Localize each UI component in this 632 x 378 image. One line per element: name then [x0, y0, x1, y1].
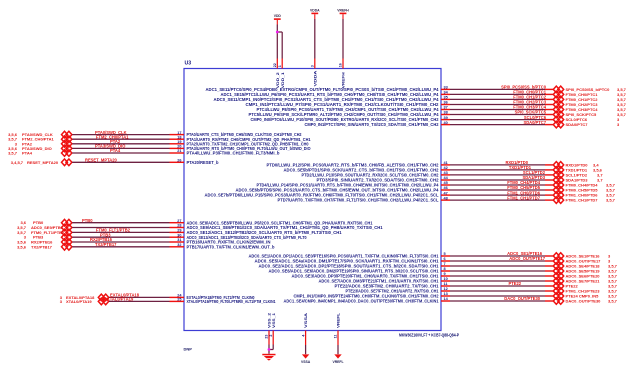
wire FTM1_CH1/PTE23: [441, 290, 553, 292]
off-page connector FTM2_CH0/PTA1: [62, 136, 72, 143]
svg-text:VREFL: VREFL: [336, 312, 341, 328]
svg-text:12: 12: [444, 287, 448, 291]
node ADC0_SE7/PTE21 sheet refs: [566, 279, 618, 284]
off-page connector ADC0_SE4/PTE18: [553, 263, 563, 270]
svg-text:7: 7: [444, 262, 446, 266]
svg-text:1: 1: [278, 65, 282, 67]
junction VDD: [276, 31, 279, 34]
off-page connector ADC0_SE6/PTE20: [553, 273, 563, 280]
off-page connector SPI0_PCS0/SS_b/PTC0: [553, 86, 563, 93]
svg-text:36: 36: [444, 101, 448, 105]
svg-text:17: 17: [177, 131, 181, 135]
pin 48 FTM1_CH1/PTD7: [278, 196, 448, 202]
node FTM1_CH0/PTD6 sheet refs: [566, 193, 616, 198]
svg-text:27: 27: [177, 219, 181, 223]
pin 13 PTE24 CMP0_IN5: [294, 292, 448, 298]
svg-text:3,7: 3,7: [597, 178, 603, 183]
svg-text:43: 43: [444, 171, 448, 175]
power symbol VDD: [274, 14, 282, 25]
svg-text:VSS_1: VSS_1: [271, 312, 276, 328]
pin 34 FTM0_CH0/PTC1: [221, 91, 449, 97]
pin 12 FTM1_CH1/PTE23: [346, 287, 448, 293]
node FTM1_CH1/PTE23 sheet refs: [566, 289, 618, 294]
node FTM0_CH2/PTC3 sheet refs: [566, 102, 627, 107]
wire XTAL0/PTA19: [109, 300, 184, 302]
off-page connector FTM0_CH2/PTC3: [553, 101, 563, 108]
wire PTA4: [72, 152, 184, 154]
off-page connector SDA0/PTC7: [553, 121, 563, 128]
off-page connector RXD1/PTD0: [553, 162, 563, 169]
off-page connector PTA0/SWD_CLK: [62, 131, 72, 138]
node ADC0_SE6/PTE20 sheet refs: [566, 274, 618, 279]
svg-text:47: 47: [444, 191, 448, 195]
op-amp U3 microcontroller body: [184, 69, 441, 331]
wire ADC0_SE5/PTE19: [441, 270, 553, 272]
svg-text:4: 4: [301, 335, 305, 337]
wire PTA3/SWD_DIO: [72, 147, 184, 149]
pin 42 TXD1/PTD1: [284, 166, 448, 172]
svg-text:XTAL0/PTA19/FTM0_FLT0/LPTMR0_A: XTAL0/PTA19/FTM0_FLT0/LPTMR0_ALT1/FTM_CL…: [187, 299, 277, 304]
pin 41 RXD1/PTD0: [267, 161, 448, 167]
wire FTM0_CH4/PTD4: [441, 184, 553, 186]
svg-text:48: 48: [444, 196, 448, 200]
node PTE24 CMP0_IN5 sheet refs: [566, 294, 618, 299]
wire PTE24 CMP0_IN5: [441, 295, 553, 297]
svg-text:3,5,7: 3,5,7: [608, 299, 618, 304]
off-page connector FTM0_CH1/PTC2: [553, 96, 563, 103]
svg-text:ADC1_SE4/CMP0_IN4/CMP1_IN4/ADC: ADC1_SE4/CMP0_IN4/CMP1_IN4/ADC0_DAC0_OUT…: [284, 299, 440, 304]
svg-text:20: 20: [177, 145, 181, 149]
junction VSS: [268, 348, 271, 351]
svg-text:10: 10: [444, 277, 448, 281]
wire PTA2: [72, 143, 184, 145]
pin 17 PTA0/SWD_CLK: [177, 131, 302, 137]
pin 19 PTA2: [177, 140, 309, 146]
svg-text:VSSA: VSSA: [301, 360, 311, 364]
node ADC0_SE1/PTE16 sheet refs: [566, 254, 612, 259]
pin 38 SPI0_SCK/PTC5: [249, 111, 448, 117]
node TX2/PTB17 sheet refs: [17, 244, 53, 249]
wire ADC0_SE4/PTE18: [441, 265, 553, 267]
pin 5 ADC0_SE1/PTE16: [249, 252, 446, 258]
node ADC0_OUT/PTE17 sheet refs: [566, 259, 612, 264]
wire PTA0/SWD_CLK: [72, 134, 184, 136]
svg-text:VDD: VDD: [274, 14, 282, 18]
wire FTM1_CH1/PTD7: [441, 199, 553, 201]
node FTM2_CH0/PTA1 sheet refs: [8, 137, 54, 142]
off-page connector FTM0_FLT1/PTB2: [62, 229, 72, 236]
pin 16 VREFH: [339, 63, 346, 88]
wire VSS_2 vertical: [268, 331, 270, 354]
pin 39 SCL0/PTC6: [251, 116, 448, 122]
node SCL0/PTC6 sheet refs: [566, 117, 621, 122]
svg-text:3,5,6: 3,5,6: [17, 244, 27, 249]
off-page connector SCL0/PTC6: [553, 116, 563, 123]
off-page connector PTA2: [62, 141, 72, 148]
pin 21 PTA4: [177, 149, 280, 155]
svg-text:26: 26: [177, 159, 181, 163]
off-page connector RESET_MPTA20: [62, 159, 72, 166]
svg-text:ADC0_OUT/PTE17: ADC0_OUT/PTE17: [509, 256, 545, 261]
svg-text:PTE22: PTE22: [508, 281, 521, 286]
svg-text:3,5,7: 3,5,7: [8, 151, 18, 156]
svg-text:38: 38: [444, 111, 448, 115]
svg-text:19: 19: [177, 140, 181, 144]
svg-text:28: 28: [177, 224, 181, 228]
off-page connector PTE24 CMP0_IN5: [553, 293, 563, 300]
pin 9 ADC0_SE6/PTE20: [292, 272, 446, 278]
pin 36 FTM0_CH2/PTC3: [246, 101, 448, 107]
svg-text:11: 11: [444, 282, 448, 286]
svg-text:37: 37: [444, 106, 448, 110]
pin 11 VREFL: [334, 312, 341, 338]
off-page connector FTM0_CH4/PTD4: [553, 182, 563, 189]
node SDA0/PTC7 sheet refs: [566, 122, 621, 127]
off-page connector ADC0_SE1/PTE16: [553, 253, 563, 260]
wire RXD1/PTD0: [441, 164, 553, 166]
pin 20 PTA3/SWD_DIO: [177, 145, 311, 151]
svg-text:VDD_1: VDD_1: [280, 71, 285, 88]
node PTA4 sheet refs: [8, 151, 33, 156]
power symbol VREFL: [332, 354, 343, 363]
svg-text:PTA4: PTA4: [22, 151, 33, 156]
svg-text:41: 41: [444, 161, 448, 165]
pin 31 RX2/PTB16: [177, 238, 270, 244]
svg-text:31: 31: [177, 238, 181, 242]
svg-text:18: 18: [177, 135, 181, 139]
pin 3 VDDA: [311, 65, 318, 86]
pin 7 ADC0_SE4/PTE18: [259, 262, 446, 268]
wire SPI0_PCS0/SS_b/PTC0: [441, 88, 553, 90]
svg-text:DAC0_OUT/PTE30: DAC0_OUT/PTE30: [566, 299, 602, 304]
wire PTB3: [72, 236, 184, 238]
svg-text:DNP: DNP: [184, 347, 193, 352]
svg-text:5: 5: [444, 252, 446, 256]
svg-text:45: 45: [444, 181, 448, 185]
wire ADC0_SE6/PTE20: [441, 275, 553, 277]
off-page connector FTM1_CH1/PTE23: [553, 288, 563, 295]
node FTM0_CH3/PTC4 sheet refs: [566, 107, 627, 112]
wire FTM2_CH0/PTA1: [72, 138, 184, 140]
svg-text:XTAL0/PTA19: XTAL0/PTA19: [107, 297, 134, 302]
node FTM0_CH4/PTD4 sheet refs: [566, 183, 616, 188]
node RX2/PTB16 sheet refs: [17, 240, 53, 245]
power symbol VREFH: [337, 8, 349, 19]
svg-text:DAC0_OUT/PTE30: DAC0_OUT/PTE30: [504, 296, 540, 301]
node SPI0_SCK/PTC5 sheet refs: [566, 112, 627, 117]
pin 47 FTM1_CH0/PTD6: [205, 191, 448, 197]
pin 30 PTB3: [177, 233, 307, 239]
svg-text:SDA0/PTC7: SDA0/PTC7: [523, 120, 546, 125]
pin 8 ADC0_SE5/PTE19: [269, 267, 446, 273]
svg-text:PTA4: PTA4: [110, 148, 121, 153]
svg-text:30: 30: [177, 233, 181, 237]
wire ADC0_SE9/PTB1: [72, 227, 184, 229]
node PTA2 sheet refs: [15, 141, 33, 146]
svg-text:2: 2: [269, 335, 273, 337]
wire SCL1/PTD2: [441, 174, 553, 176]
svg-text:PTB0: PTB0: [82, 218, 93, 223]
wire VDD branch to VDD_1: [277, 32, 282, 69]
off-page connector ADC0_OUT/PTE17: [553, 258, 563, 265]
pin 22 VDD_2: [273, 63, 280, 88]
wire SPI0_SCK/PTC5: [441, 114, 553, 116]
svg-text:PTA4/LLWU_P3/FTM0_CH1/FTM0_FLT: PTA4/LLWU_P3/FTM0_CH1/FTM0_FLT3/NMI_b: [187, 151, 280, 156]
svg-text:VDDA: VDDA: [310, 8, 320, 12]
off-page connector SCL1/PTD2: [553, 172, 563, 179]
pin 43 SCL1/PTD2: [302, 171, 448, 177]
svg-text:6: 6: [444, 257, 446, 261]
pin 46 FTM0_CH5/PTD5: [236, 186, 448, 192]
pin 27 PTB0: [177, 219, 373, 225]
wire DAC0_OUT/PTE30: [441, 300, 553, 302]
pin 2 VSS_1: [269, 312, 276, 337]
pin 11 PTE22: [335, 282, 448, 288]
wire ADC0_SE7/PTE21: [441, 280, 553, 282]
wire VSSA vertical: [305, 331, 307, 355]
wire VDDA vertical: [314, 19, 316, 69]
off-page connector TX2/PTB17: [62, 244, 72, 251]
pin 1 VDD_1: [278, 65, 285, 88]
pin 44 SDA1/PTD3: [317, 176, 449, 182]
svg-text:RESET_MPTA20: RESET_MPTA20: [85, 158, 117, 163]
node EXTAL0/PTA18 sheet refs: [60, 295, 95, 300]
svg-text:SDA0/PTC7: SDA0/PTC7: [566, 122, 589, 127]
off-page connector SDA1/PTD3: [553, 177, 563, 184]
pin 33 SPI0_PCS0/SS_b/PTC0: [206, 86, 448, 92]
svg-text:3,4,5,7: 3,4,5,7: [11, 160, 24, 165]
off-page connector PTB0: [62, 219, 72, 226]
power symbol VDDA: [310, 8, 320, 19]
svg-text:9: 9: [444, 272, 446, 276]
pin 45 FTM0_CH4/PTD4: [257, 181, 448, 187]
wire ADC0_OUT/PTE17: [441, 260, 553, 262]
node FTM1_CH1/PTD7 sheet refs: [566, 198, 616, 203]
off-page connector FTM1_CH0/PTD6: [553, 192, 563, 199]
svg-text:U3: U3: [185, 61, 192, 67]
svg-text:42: 42: [444, 166, 448, 170]
node XTAL0/PTA19 sheet refs: [60, 299, 93, 304]
node PTB0 sheet refs: [20, 220, 44, 225]
node PTA0/SWD_CLK sheet refs: [8, 132, 53, 137]
pin 4 VSSA: [301, 313, 308, 337]
node ADC0_SE5/PTE19 sheet refs: [566, 269, 618, 274]
svg-text:FTM1_CH1/PTD7: FTM1_CH1/PTD7: [507, 195, 540, 200]
wire TXD1/PTD1: [441, 169, 553, 171]
svg-text:VREFH: VREFH: [337, 8, 349, 12]
svg-text:40: 40: [444, 121, 448, 125]
node PTE22 sheet refs: [566, 284, 618, 289]
wire SCL0/PTC6: [441, 119, 553, 121]
off-page connector DAC0_OUT/PTE30: [553, 298, 563, 305]
svg-text:46: 46: [444, 186, 448, 190]
wire PTB0: [72, 222, 184, 224]
pin 35 FTM0_CH1/PTC2: [214, 96, 448, 102]
wire VSS_1 vertical with jog: [269, 331, 273, 350]
svg-text:VREFL: VREFL: [332, 360, 343, 364]
wire FTM0_CH3/PTC4: [441, 109, 553, 111]
pin 14 DAC0_OUT/PTE30: [284, 297, 449, 303]
off-page connector ADC0_SE7/PTE21: [553, 278, 563, 285]
node SCL1/PTD2 sheet refs: [566, 172, 604, 177]
pin 37 FTM0_CH3/PTC4: [257, 106, 448, 112]
node SDA1/PTD3 sheet refs: [566, 178, 604, 183]
off-page connector FTM0_CH5/PTD5: [553, 187, 563, 194]
off-page connector FTM0_CH3/PTC4: [553, 106, 563, 113]
svg-text:32: 32: [177, 243, 181, 247]
svg-text:VREFH: VREFH: [341, 72, 346, 88]
power symbol VSSA: [301, 354, 311, 363]
node DAC0_OUT/PTE30 sheet refs: [566, 299, 618, 304]
svg-text:22: 22: [273, 63, 277, 67]
off-page connector SPI0_SCK/PTC5: [553, 111, 563, 118]
off-page connector TXD1/PTD1: [553, 167, 563, 174]
pin 6 ADC0_OUT/PTE17: [255, 257, 446, 263]
node PTB3 sheet refs: [24, 235, 44, 240]
svg-text:XTAL0/PTA19: XTAL0/PTA19: [66, 299, 92, 304]
svg-text:CMP0_IN1/PTC7/SPI0_SIN/UART0_T: CMP0_IN1/PTC7/SPI0_SIN/UART0_TX/I2C0_SDA…: [305, 122, 440, 127]
off-page connector RX2/PTB16: [62, 239, 72, 246]
svg-text:33: 33: [444, 86, 448, 90]
wire RESET_MPTA20: [72, 161, 184, 163]
svg-text:MKW30Z160VLF7 + KCB7-Q88-Q84-P: MKW30Z160VLF7 + KCB7-Q88-Q84-P: [399, 333, 459, 338]
svg-text:TX2/PTB17: TX2/PTB17: [95, 242, 117, 247]
wire ADC0_SE1/PTE16: [441, 255, 553, 257]
pin 26 RESET_MPTA20: [177, 159, 219, 165]
wire TX2/PTB17: [72, 246, 184, 248]
svg-text:VDDA: VDDA: [312, 70, 317, 86]
svg-text:29: 29: [177, 229, 181, 233]
pin 24 EXTAL0/PTA18: [177, 294, 255, 300]
off-page connector EXTAL0/PTA18: [98, 294, 108, 301]
node TXD1/PTD1 sheet refs: [566, 167, 603, 172]
node FTM0_CH1/PTC2 sheet refs: [566, 97, 627, 102]
off-page connector PTE22: [553, 283, 563, 290]
off-page connector PTA3/SWD_DIO: [62, 145, 72, 152]
svg-text:PTD7/UART0_TX/FTM0_CH7/FTM0_FL: PTD7/UART0_TX/FTM0_CH7/FTM0_FLT1/TSI0_CH…: [278, 198, 439, 203]
wire VREFL vertical: [337, 331, 339, 355]
node FTM0_CH0/PTC1 sheet refs: [566, 92, 627, 97]
pin 10 ADC0_SE7/PTE21: [319, 277, 448, 283]
node ADC0_SE9/PTB1 sheet refs: [17, 225, 64, 230]
wire VREFH vertical: [342, 19, 344, 69]
svg-text:RESET_MPTA20: RESET_MPTA20: [27, 160, 59, 165]
node PTA3/SWD_DIO sheet refs: [8, 146, 52, 151]
svg-text:39: 39: [444, 116, 448, 120]
node FTM0_CH5/PTD5 sheet refs: [566, 188, 616, 193]
wire FTM0_CH5/PTD5: [441, 189, 553, 191]
svg-text:21: 21: [177, 149, 181, 153]
node SPI0_PCS0/SS_b/PTC0 sheet refs: [566, 87, 627, 92]
svg-text:25: 25: [177, 298, 181, 302]
wire FTM1_CH0/PTD6: [441, 194, 553, 196]
pin 32 TX2/PTB17: [177, 243, 275, 249]
svg-text:11: 11: [334, 335, 338, 339]
off-page connector XTAL0/PTA19: [98, 298, 108, 305]
wire PTE22: [441, 285, 553, 287]
svg-text:TX2/PTB17: TX2/PTB17: [31, 244, 53, 249]
off-page connector FTM1_CH1/PTD7: [553, 197, 563, 204]
pin 18 FTM2_CH0/PTA1: [177, 135, 311, 141]
wire SDA0/PTC7: [441, 124, 553, 126]
svg-text:FTM1_CH1/PTD7: FTM1_CH1/PTD7: [566, 198, 599, 203]
node RXD1/PTD0 sheet refs: [566, 162, 600, 167]
pin 40 SDA0/PTC7: [305, 121, 448, 127]
svg-text:35: 35: [444, 96, 448, 100]
wire FTM0_CH0/PTC1: [441, 93, 553, 95]
off-page connector ADC0_SE9/PTB1: [62, 224, 72, 231]
pin 29 FTM0_FLT1/PTB2: [177, 229, 342, 235]
off-page connector FTM0_CH0/PTC1: [553, 91, 563, 98]
ground symbol GND: [262, 354, 275, 361]
pin 25 XTAL0/PTA19: [177, 298, 276, 304]
pin 23 VSS_2: [265, 312, 272, 339]
wire FTM0_FLT1/PTB2: [72, 231, 184, 233]
svg-text:VSSA: VSSA: [303, 313, 308, 328]
wire VDD vertical: [276, 25, 278, 69]
svg-text:PTA20/RESET_b: PTA20/RESET_b: [187, 160, 219, 165]
svg-text:PTB17/UART0_TX/FTM_CLKIN1/EWM_: PTB17/UART0_TX/FTM_CLKIN1/EWM_OUT_b: [187, 244, 275, 249]
wire RX2/PTB16: [72, 241, 184, 243]
svg-text:13: 13: [444, 292, 448, 296]
wire SDA1/PTD3: [441, 179, 553, 181]
node FTM0_FLT1/PTB2 sheet refs: [17, 230, 65, 235]
svg-text:16: 16: [339, 63, 343, 67]
off-page connector PTB3: [62, 234, 72, 241]
node ADC0_SE4/PTE18 sheet refs: [566, 264, 618, 269]
svg-text:3: 3: [311, 65, 315, 67]
wire FTM0_CH1/PTC2: [441, 98, 553, 100]
wire FTM0_CH2/PTC3: [441, 104, 553, 106]
node RESET_MPTA20 sheet refs: [11, 160, 59, 165]
off-page connector ADC0_SE5/PTE19: [553, 268, 563, 275]
wire EXTAL0/PTA18: [109, 296, 184, 298]
pin 28 ADC0_SE9/PTB1: [177, 224, 383, 230]
svg-text:8: 8: [444, 267, 446, 271]
off-page connector PTA4: [62, 150, 72, 157]
svg-text:3,5,7: 3,5,7: [606, 198, 616, 203]
